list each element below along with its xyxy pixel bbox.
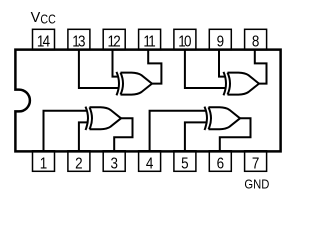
svg-text:10: 10: [178, 33, 191, 50]
IC body DIP-14 outline with notch: [15, 50, 280, 152]
pin 13 box: [68, 29, 90, 50]
wire U1d output to pin 11: [148, 50, 161, 84]
svg-text:1: 1: [40, 156, 47, 173]
svg-text:7: 7: [252, 156, 259, 173]
pin 14 box: [33, 29, 55, 50]
Vcc power label: [31, 10, 56, 27]
wire pin 12 to U1d input A: [113, 50, 119, 77]
pin 10 box: [174, 29, 196, 50]
svg-text:8: 8: [252, 33, 259, 50]
pin 8 box: [245, 29, 267, 50]
GND power label: [244, 177, 269, 192]
svg-text:3: 3: [110, 156, 117, 173]
svg-text:11: 11: [143, 33, 155, 50]
wire pin 13 to U1d input B: [79, 50, 118, 88]
svg-text:13: 13: [72, 33, 85, 50]
pin 4 box: [139, 151, 161, 172]
XOR gate U1d (pins 12,13 in / 11 out): [117, 72, 153, 95]
pin 6 box: [209, 151, 231, 172]
svg-text:GND: GND: [244, 177, 269, 192]
svg-text:12: 12: [108, 33, 121, 50]
pin 12 box: [103, 29, 125, 50]
XOR gate U1a (pins 1,2 in / 3 out): [86, 107, 122, 130]
pin 1 box: [33, 151, 55, 172]
pin 3 box: [103, 151, 125, 172]
wire U1b output to pin 6: [220, 118, 251, 151]
pin 2 box: [68, 151, 90, 172]
XOR gate U1c (pins 9,10 in / 8 out): [224, 72, 260, 95]
wire U1c output to pin 8: [255, 50, 267, 84]
svg-text:9: 9: [217, 33, 224, 50]
svg-text:14: 14: [37, 33, 50, 50]
wire pin 9 to U1c input A: [219, 50, 225, 77]
svg-text:CC: CC: [40, 13, 55, 27]
XOR gate U1b (pins 4,5 in / 6 out): [205, 107, 241, 130]
wire pin 10 to U1c input B: [185, 50, 225, 88]
pin 11 box: [139, 29, 161, 50]
svg-text:6: 6: [217, 156, 224, 173]
wire pin 4 to U1b input A: [150, 111, 207, 151]
svg-text:V: V: [31, 10, 41, 26]
svg-text:2: 2: [75, 156, 82, 173]
wire U1a output to pin 3: [114, 118, 132, 151]
pin 7 box: [245, 151, 267, 172]
svg-text:4: 4: [146, 156, 153, 173]
wire pin 1 to U1a input A: [44, 111, 88, 151]
svg-text:5: 5: [181, 156, 188, 173]
pin 5 box: [174, 151, 196, 172]
wire pin 5 to U1b input B: [185, 122, 206, 150]
pin 9 box: [209, 29, 231, 50]
wire pin 2 to U1a input B: [79, 122, 87, 150]
